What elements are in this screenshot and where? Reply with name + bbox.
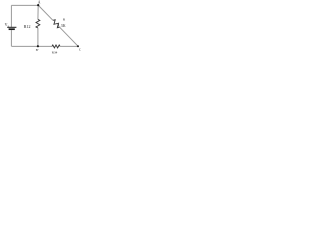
svg-text:s: s	[8, 25, 9, 28]
wire: from R12 down to node B'	[37, 28, 39, 47]
svg-text:A: A	[38, 0, 41, 4]
battery Vs: long positive plate	[7, 26, 16, 28]
svg-text:R12: R12	[24, 24, 31, 29]
node B' (junction dot)	[37, 45, 39, 47]
svg-text:R: R	[63, 17, 66, 21]
resistor R34 (horizontal zigzag)	[52, 45, 60, 48]
resistor R12 (vertical zigzag)	[36, 19, 40, 28]
wire: diagonal from resistor R to node C	[60, 27, 78, 46]
wire: top horizontal from left corner to node A	[11, 4, 38, 6]
node C (junction dot)	[77, 45, 79, 47]
svg-text:R34: R34	[52, 50, 58, 54]
wire: bottom horizontal from corner to resistor R34	[11, 45, 52, 47]
svg-text:C: C	[79, 47, 82, 51]
wire: left vertical from corner down to battery top	[10, 5, 12, 27]
node A (junction dot)	[37, 4, 39, 6]
resistor R 3.3K (diagonal zigzag)	[51, 19, 61, 29]
battery Vs: short thick negative plate	[9, 28, 15, 30]
svg-text:B': B'	[36, 48, 39, 52]
wire: bottom horizontal from R34 to node C	[60, 45, 78, 47]
wire: from node A down to resistor R12	[37, 5, 39, 19]
svg-text:3.3K: 3.3K	[57, 24, 66, 28]
wire: diagonal from node A to resistor R	[39, 6, 53, 21]
wire: from battery bottom down to bottom-left corner	[10, 30, 12, 46]
